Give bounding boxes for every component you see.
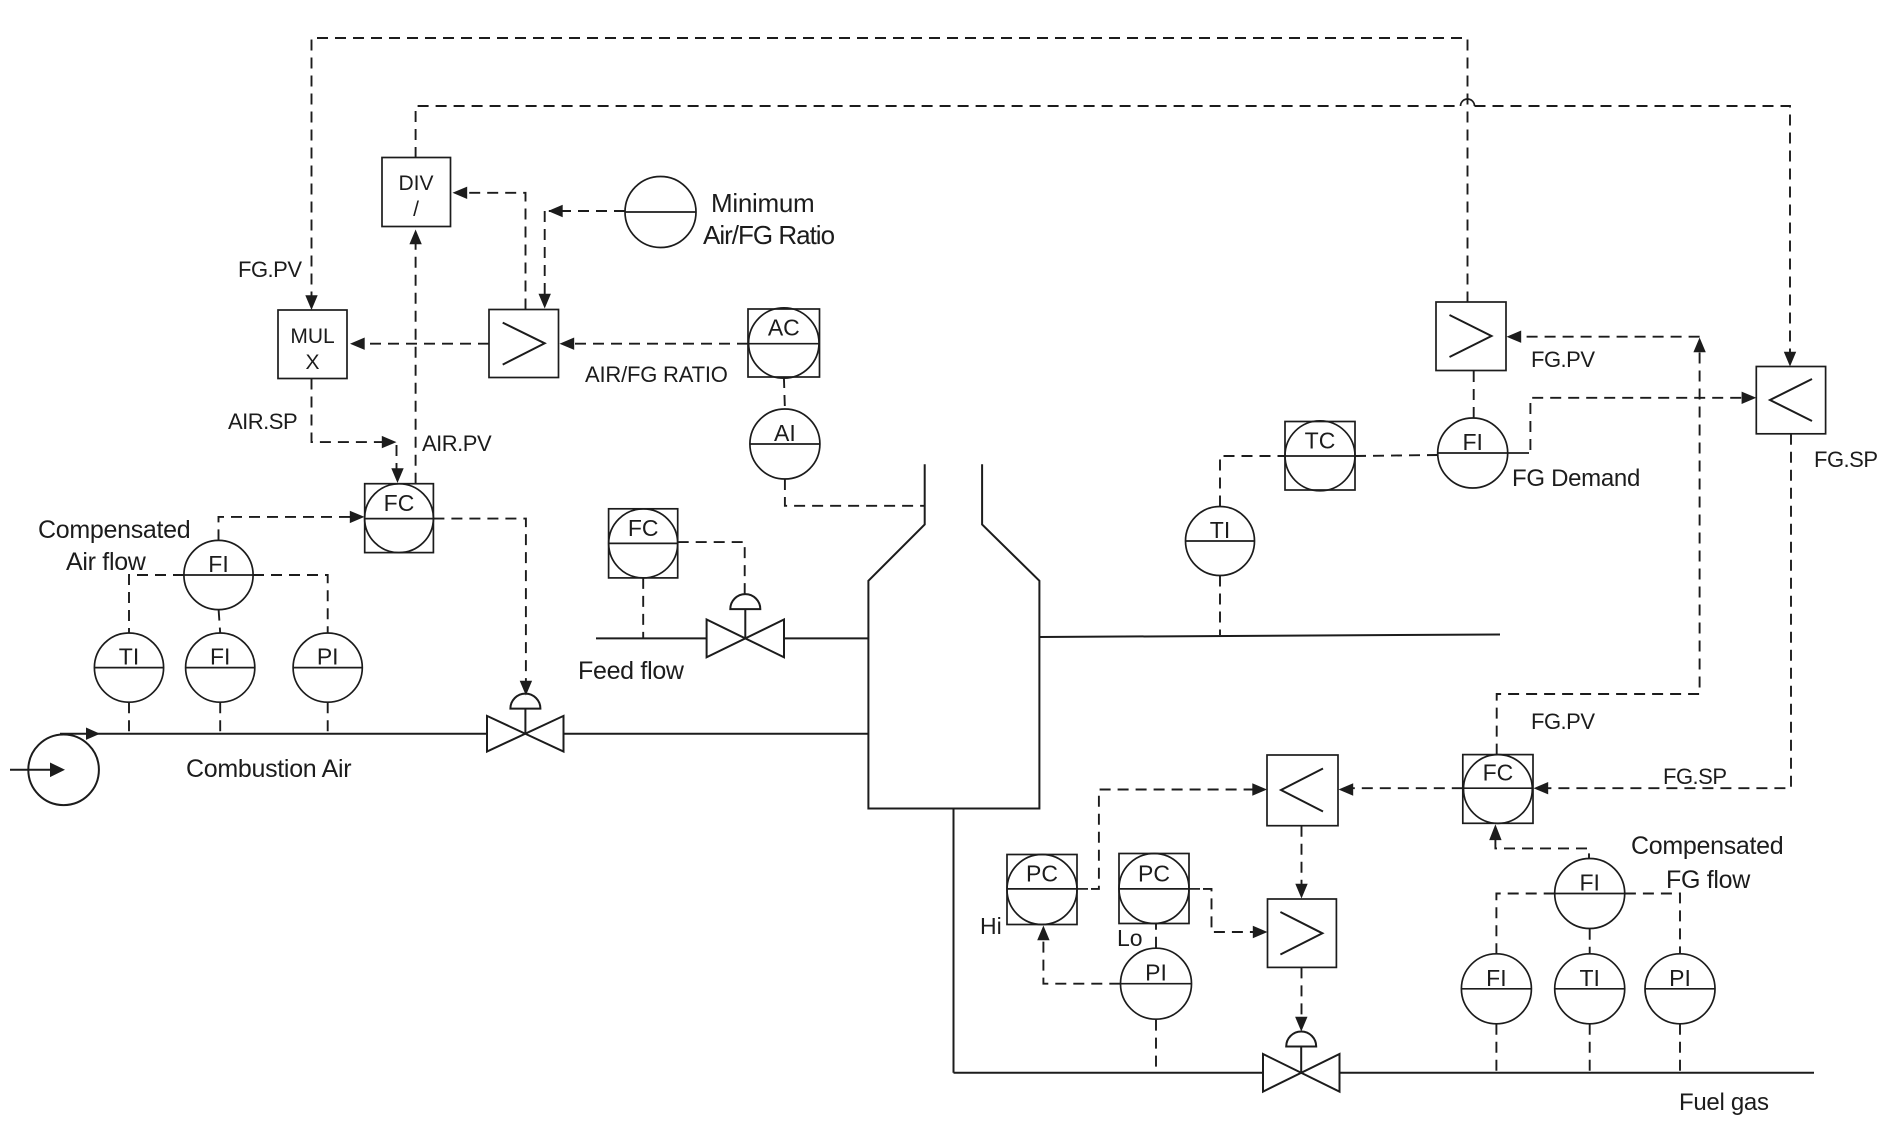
svg-text:FG.PV: FG.PV: [238, 257, 302, 282]
wire: feed FC to feed valve actuator: [678, 542, 745, 595]
svg-text:FC: FC: [628, 515, 659, 541]
svg-text:AIR.SP: AIR.SP: [228, 409, 297, 434]
svg-text:AC: AC: [768, 315, 800, 341]
AI indicator: [750, 409, 820, 479]
wire: TC to FI FG demand: [1355, 455, 1438, 456]
svg-text:FC: FC: [384, 490, 415, 516]
wire: high-selector output to MUL right input: [364, 343, 489, 345]
high selector block top-left: [489, 310, 559, 378]
svg-text:Lo: Lo: [1117, 925, 1143, 951]
svg-text:X: X: [305, 351, 319, 374]
svg-text:PC: PC: [1138, 860, 1170, 886]
wire: PC Hi output to bottom low-selector left input: [1077, 888, 1088, 890]
wire: Minimum Air/FG Ratio to high-selector top: [549, 210, 625, 212]
feed control valve: [707, 620, 784, 658]
arrow into DIV right edge: [453, 187, 468, 199]
wire: AC to AI: [784, 377, 785, 409]
svg-text:Compensated: Compensated: [38, 516, 190, 544]
svg-text:FI: FI: [1462, 429, 1482, 455]
wire: PI to PC Lo bottom: [1155, 924, 1157, 948]
fuel gas control valve: [1263, 1054, 1340, 1092]
wire: bottom low-selector output to bottom high-selector: [1301, 826, 1303, 885]
svg-text:FG.PV: FG.PV: [1531, 709, 1595, 734]
svg-text:Compensated: Compensated: [1631, 832, 1783, 860]
wire: compensated FG FI right branch to PI below: [1625, 894, 1680, 954]
arrow into bottom high-selector left edge: [1253, 926, 1268, 938]
wire: high-selector output to MUL X (top FG.PV loop): [312, 38, 1468, 303]
wire: feed FC bottom tap to feed line: [642, 578, 644, 639]
wire: AC output to high-selector right input: [573, 343, 748, 345]
svg-text:TI: TI: [1579, 965, 1599, 991]
svg-text:Hi: Hi: [980, 913, 1002, 939]
svg-text:AIR.PV: AIR.PV: [422, 431, 492, 456]
svg-text:Air flow: Air flow: [66, 548, 147, 576]
arrow into DIV bottom: [409, 230, 421, 245]
FI FG demand: [1438, 418, 1508, 488]
wire: AIR.PV riser from FC air top to DIV bottom: [415, 243, 417, 484]
svg-text:Fuel gas: Fuel gas: [1679, 1089, 1769, 1116]
svg-text:TC: TC: [1305, 427, 1336, 453]
arrow into PC Hi bottom: [1037, 926, 1049, 941]
wire: PI tap to air line: [327, 702, 329, 734]
FC fuel gas flow controller: [1463, 755, 1533, 824]
svg-text:MUL: MUL: [290, 325, 334, 348]
wire: MUL output AIR.SP to FC air controller: [312, 379, 384, 443]
wire: PC Lo output to bottom high-selector left input: [1189, 888, 1200, 890]
svg-text:FI: FI: [208, 551, 228, 577]
PC Hi pressure controller: [1007, 855, 1077, 925]
svg-text:FI: FI: [1486, 965, 1506, 991]
wire: compensated FG FI to FC fuel bottom: [1495, 839, 1589, 858]
high selector block top-right: [1436, 302, 1506, 371]
TI air: [94, 633, 163, 702]
arrow into high-selector right edge: [1507, 331, 1522, 343]
arrow into FC fuel bottom: [1489, 824, 1501, 840]
Minimum Air/FG Ratio setpoint bubble: [625, 177, 696, 248]
wire: FI FG demand right to low-selector left input: [1508, 452, 1529, 454]
TI furnace outlet: [1186, 507, 1255, 576]
blower inlet arrow: [10, 769, 51, 771]
fuel gas drop from furnace: [953, 809, 955, 1073]
svg-text:TI: TI: [119, 644, 139, 670]
wire: FC air output to combustion air valve: [433, 519, 526, 682]
wire: PI tap to fuel gas line: [1679, 1024, 1681, 1073]
svg-text:Air/FG Ratio: Air/FG Ratio: [703, 220, 835, 250]
arrow into FC fuel right edge: [1534, 782, 1549, 794]
wire: TI tap to air line: [128, 702, 130, 734]
wire: low-selector output FG.SP down to FC fuel right input: [1547, 434, 1791, 788]
DIV / function block: [382, 158, 451, 227]
wire: FI FG demand to high-selector bottom: [1473, 371, 1475, 419]
arrow into low-selector left edge: [1742, 392, 1757, 404]
wire: FI tap to fuel gas line: [1495, 1024, 1497, 1073]
wire: FC fuel output to bottom low-selector right input: [1352, 787, 1463, 789]
wire: compensated FG FI to TI below: [1589, 929, 1591, 954]
wire: compensated FG FI left branch to FI below: [1496, 894, 1554, 954]
wire: compensated FI right branch to PI: [253, 575, 328, 633]
wire: bottom high-selector output to fuel valve actuator: [1301, 967, 1303, 1017]
wire: PI to PC Hi bottom: [1043, 939, 1120, 984]
PI fuel gas line: [1645, 954, 1715, 1024]
PI fuel gas pressure: [1121, 948, 1192, 1019]
arrow into bottom low-selector right edge: [1339, 783, 1354, 795]
FI fuel gas: [1461, 954, 1531, 1024]
TC temperature controller: [1285, 422, 1355, 491]
TI fuel gas: [1555, 954, 1625, 1024]
PI air: [293, 633, 362, 702]
svg-text:PI: PI: [317, 644, 339, 670]
svg-text:FG flow: FG flow: [1666, 866, 1751, 894]
svg-text:FG.PV: FG.PV: [1531, 347, 1595, 372]
high selector block bottom: [1268, 899, 1337, 967]
arrow into low-selector top: [1784, 352, 1796, 367]
svg-text:FG.SP: FG.SP: [1814, 447, 1878, 472]
svg-text:Minimum: Minimum: [711, 188, 814, 218]
arrow into high-selector top: [539, 294, 551, 309]
svg-text:AI: AI: [774, 420, 796, 446]
wire: compensated FI left branch to TI: [129, 575, 184, 633]
AC ratio controller: [748, 309, 820, 377]
svg-text:FI: FI: [1579, 870, 1599, 896]
fuel gas process line: [954, 1072, 1815, 1074]
svg-text:Combustion Air: Combustion Air: [186, 755, 351, 783]
PC Lo pressure controller: [1119, 854, 1189, 924]
svg-text:PC: PC: [1026, 860, 1058, 886]
svg-text:TI: TI: [1210, 517, 1230, 543]
arrow on combustion air line: [86, 728, 100, 740]
wire: FI tap to air line: [219, 702, 221, 734]
wire: DIV output to low-selector top right (with hop over crossing): [416, 106, 1461, 158]
feed process line: [596, 637, 868, 639]
furnace outlet process line: [1039, 635, 1500, 638]
svg-text:PI: PI: [1145, 960, 1167, 986]
FI compensated air flow: [184, 540, 253, 609]
arrow into FC air top: [391, 468, 403, 483]
wire: AI to furnace stack: [785, 479, 925, 506]
arrow into MUL right edge: [350, 338, 365, 350]
combustion air control valve: [487, 716, 564, 752]
FI compensated FG flow: [1555, 859, 1625, 929]
svg-text:Feed flow: Feed flow: [578, 657, 685, 685]
wire: FG.PV riser from FC fuel top to high-selector right input: [1497, 351, 1700, 755]
svg-text:FC: FC: [1483, 760, 1514, 786]
arrow into bottom low-selector left edge: [1252, 783, 1267, 795]
MUL X function block: [278, 310, 347, 379]
low selector block top-right: [1756, 367, 1825, 434]
svg-text:/: /: [413, 198, 419, 221]
wire: ratio net from high-selector top to DIV right input: [466, 193, 526, 310]
wire: PI tap to fuel line: [1155, 1020, 1157, 1073]
svg-text:AIR/FG RATIO: AIR/FG RATIO: [585, 362, 728, 387]
wire: compensated FI to FC air left input: [219, 517, 352, 541]
combustion air process line: [60, 733, 868, 735]
blower / fan: [28, 735, 99, 806]
svg-text:FG Demand: FG Demand: [1512, 465, 1640, 492]
wire: TI tap to fuel gas line: [1589, 1024, 1591, 1073]
FI air: [186, 633, 255, 702]
svg-text:FI: FI: [210, 644, 230, 670]
FC feed flow controller: [609, 509, 678, 578]
furnace vessel with stack: [868, 464, 1039, 808]
arrow into high-selector right edge: [560, 338, 575, 350]
arrow into air valve actuator: [520, 681, 532, 696]
svg-text:PI: PI: [1669, 965, 1691, 991]
FC air flow controller: [365, 484, 434, 553]
wire: TI right to TC: [1220, 456, 1285, 507]
arrow into MUL top: [305, 295, 317, 310]
arrow into FC air left edge: [350, 511, 365, 523]
wire: compensated FI to FI below: [219, 610, 221, 633]
wire: TI right tap to process line: [1219, 576, 1221, 636]
svg-text:DIV: DIV: [398, 172, 433, 195]
svg-text:FG.SP: FG.SP: [1663, 764, 1727, 789]
low selector block bottom: [1267, 755, 1338, 826]
